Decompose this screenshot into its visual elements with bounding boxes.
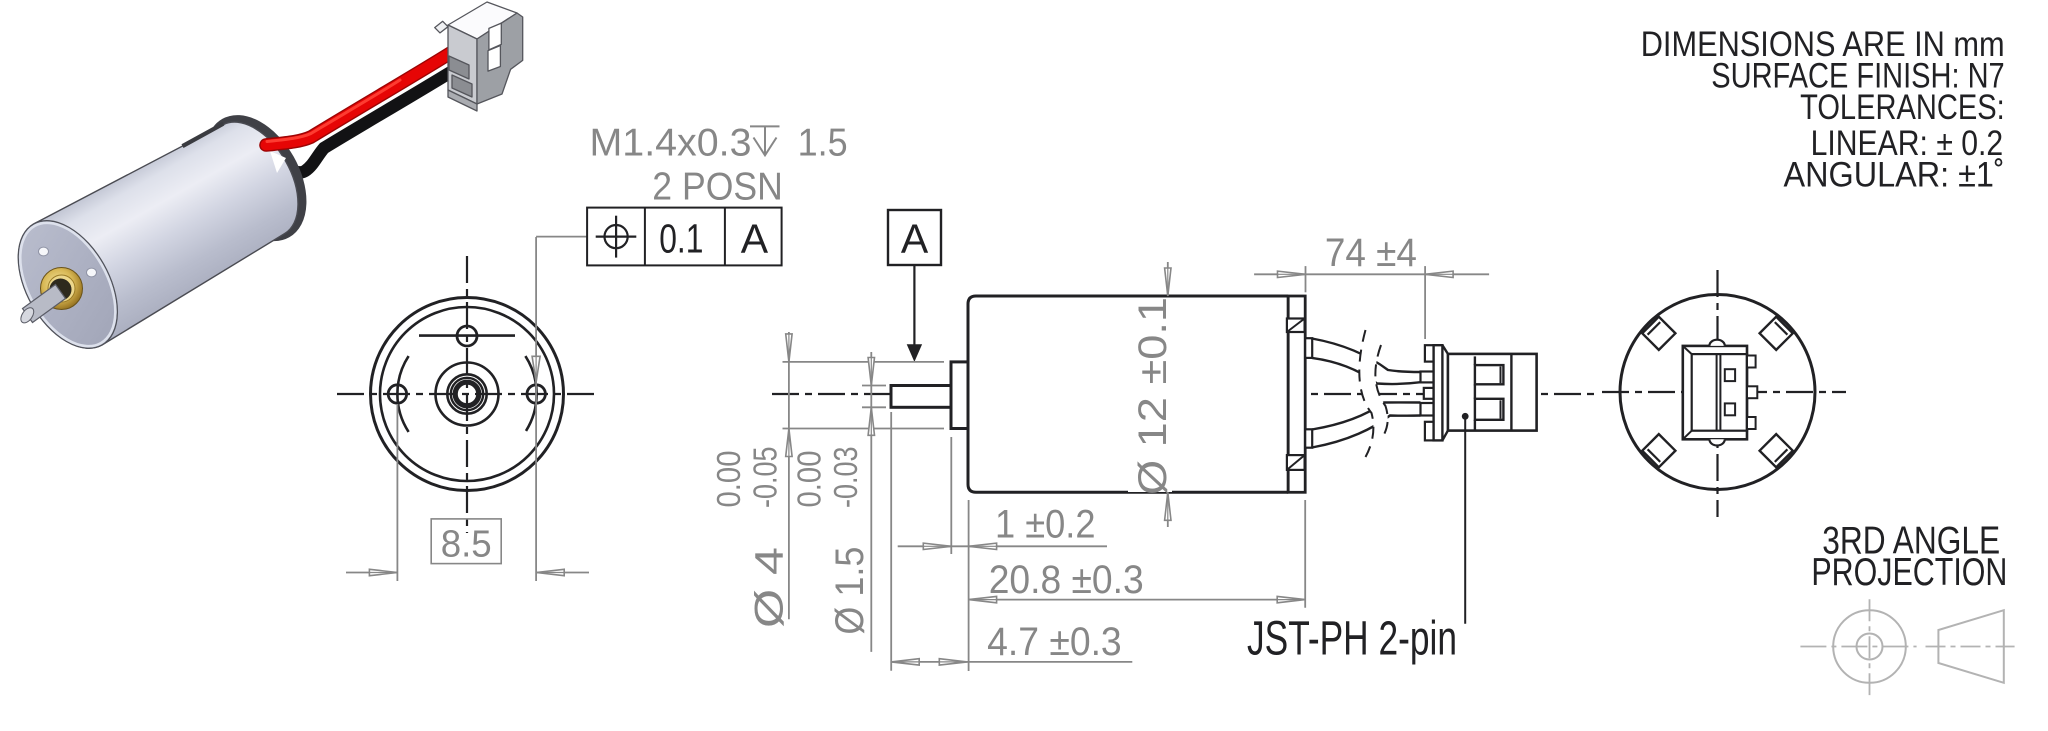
3D motor end cap rim	[191, 104, 321, 253]
projection symbol cone centerline	[1926, 646, 2015, 648]
dim dia4 arrow bottom	[786, 429, 792, 457]
dim 1 arrow left	[923, 543, 951, 549]
dim 20.8 arrow right	[1277, 596, 1305, 602]
svg-text:TOLERANCES:: TOLERANCES:	[1800, 88, 2005, 127]
dim 4.7 arrow right	[939, 659, 967, 665]
dim 74 extension left upper	[1305, 266, 1307, 292]
dim dia4 extension bottom	[783, 428, 945, 430]
feature control frame leader arrow	[532, 356, 540, 382]
rear view crimp tab top-right	[1760, 317, 1793, 350]
dim 1 extension right	[968, 500, 970, 671]
3D motor face	[0, 204, 138, 366]
dim 1 arrow right	[969, 543, 997, 549]
rear connector corner diag bottom	[1683, 431, 1692, 440]
dim dia12 text bg	[1128, 300, 1172, 492]
dim dia4 extension top	[783, 361, 945, 363]
dim 4.7 arrow left	[891, 659, 919, 665]
connector pin lower	[1421, 403, 1434, 416]
front view centerline horizontal	[337, 393, 598, 395]
dim dia1.5 arrow top	[868, 358, 874, 386]
projection symbol crosshair	[1800, 646, 1916, 648]
front view left mounting hole	[388, 385, 406, 403]
connector housing chamfer bottom	[1442, 431, 1448, 441]
wire break line right	[1375, 345, 1387, 438]
svg-text:0.00: 0.00	[710, 451, 747, 508]
dim 8.5 dimension line right	[536, 572, 589, 574]
connector pin slot upper	[1475, 365, 1504, 384]
dim 8.5 arrow right	[536, 569, 564, 575]
3D red wire core	[266, 52, 452, 145]
datum A triangle	[907, 344, 922, 362]
dim 8.5 extension line left	[396, 404, 398, 581]
front view top hole chord line	[419, 334, 515, 337]
3D gold bushing inner ring	[48, 275, 75, 302]
front view bearing circle	[447, 374, 486, 413]
connector pin middle	[1424, 388, 1434, 399]
rear connector side tab 1	[1747, 356, 1756, 368]
3D gold bushing outer	[41, 268, 83, 310]
datum A leader	[913, 265, 915, 346]
dim dia12 line top	[1167, 262, 1169, 296]
svg-text:1.5: 1.5	[798, 121, 848, 164]
3D red wire outline	[266, 52, 452, 145]
front view centerline vertical	[466, 256, 468, 533]
3D shaft	[23, 285, 66, 323]
feature control frame divider 2	[724, 208, 726, 266]
connector leader line	[1464, 419, 1466, 624]
dim 74 arrow right	[1425, 271, 1453, 277]
side view wire stub bottom	[1305, 429, 1312, 447]
side view shaft	[891, 386, 951, 408]
dim dia1.5 arrow bottom	[868, 407, 874, 435]
dim 1 extension left	[950, 437, 952, 554]
connector slot left edge segments	[1474, 356, 1476, 365]
rear connector top bump	[1709, 340, 1724, 346]
dim 1 dimension line	[898, 545, 1107, 547]
projection symbol circle	[1833, 610, 1906, 683]
3D JST connector housing	[435, 2, 523, 111]
wire break line left	[1359, 330, 1373, 457]
dim 20.8 arrow left	[969, 596, 997, 602]
svg-text:1 ±0.2: 1 ±0.2	[995, 502, 1096, 546]
rear view centerline horizontal	[1602, 391, 1846, 393]
front view bolt circle arc right	[525, 356, 536, 431]
dim dia12 arrow bottom	[1165, 492, 1171, 520]
3D red wire highlight	[267, 80, 400, 142]
side view end cap band	[1288, 296, 1305, 492]
dim dia12 arrow top	[1165, 268, 1171, 296]
connector flange plate	[1434, 345, 1443, 440]
rear connector key square upper	[1725, 369, 1735, 381]
position symbol	[596, 216, 637, 258]
side view motor body	[968, 296, 1288, 492]
connector flange tab bottom	[1425, 422, 1434, 441]
svg-text:0.00: 0.00	[791, 451, 828, 508]
3D rendered motor with wires and JST connector	[0, 2, 523, 365]
side view body right edge	[1287, 296, 1290, 492]
3D face screw hole upper	[39, 247, 49, 256]
rear connector side tab 3	[1747, 417, 1756, 429]
connector pin slot lower	[1475, 399, 1504, 420]
front view inner rim circle	[380, 307, 554, 481]
connector housing box	[1448, 354, 1537, 431]
svg-text:8.5: 8.5	[441, 524, 492, 566]
feature control frame leader	[536, 236, 587, 238]
front view bushing ring outer	[451, 378, 483, 410]
dim 74 dimension line	[1254, 273, 1489, 275]
front view top hole	[457, 326, 477, 346]
dim dia4 arrow top	[786, 334, 792, 362]
dim dia1.5 extension top	[862, 385, 886, 387]
connector slot lip lower	[1500, 400, 1502, 418]
rear connector divider lines	[1716, 354, 1718, 431]
3D shaft tip	[18, 305, 36, 325]
side view centerline	[772, 393, 1594, 395]
svg-text:A: A	[741, 215, 769, 261]
wire break mask	[1359, 330, 1387, 457]
rear connector inner rect	[1692, 354, 1747, 431]
3D motor body	[19, 122, 298, 348]
rear view crimp tab bottom-right	[1760, 434, 1793, 467]
feature control frame box	[587, 208, 782, 266]
svg-text:2 POSN: 2 POSN	[652, 166, 783, 209]
projection symbol cone	[1938, 610, 2003, 683]
front view boss circle	[436, 363, 499, 426]
dim dia4 dimension line	[788, 332, 790, 619]
dim 8.5 arrow left	[369, 569, 397, 575]
side view cap notch top	[1287, 319, 1305, 333]
feature control frame divider 1	[644, 208, 646, 266]
svg-text:JST-PH 2-pin: JST-PH 2-pin	[1247, 613, 1457, 666]
front view right mounting hole	[527, 385, 545, 403]
dim 4.7 extension left	[890, 412, 892, 671]
dim 4.7 dimension line	[891, 661, 1132, 663]
svg-text:-0.03: -0.03	[827, 447, 864, 509]
svg-text:A: A	[901, 215, 929, 261]
svg-text:PROJECTION: PROJECTION	[1811, 551, 2007, 594]
rear connector outer rect	[1683, 346, 1747, 439]
datum A box	[888, 210, 941, 265]
svg-text:ANGULAR: ±1˚: ANGULAR: ±1˚	[1784, 156, 2005, 195]
3D motor end cap fill	[191, 104, 321, 253]
connector pin upper	[1421, 372, 1434, 383]
dim 20.8 dimension line	[969, 599, 1306, 601]
dim 74 extension right	[1424, 266, 1426, 339]
connector housing divider	[1510, 354, 1512, 431]
3D bearing bore	[50, 279, 72, 301]
front view shaft ring thick	[455, 382, 479, 406]
dim dia1.5 dimension line	[870, 352, 872, 652]
dim dia1.5 extension bottom	[862, 406, 886, 408]
dim 74 arrow left	[1278, 271, 1306, 277]
svg-text:M1.4x0.3: M1.4x0.3	[590, 121, 752, 164]
side view bushing	[951, 362, 968, 429]
dim 20.8 extension right	[1304, 500, 1306, 608]
connector slot lip upper	[1500, 367, 1502, 384]
connector housing chamfer top	[1442, 345, 1448, 354]
rear connector corner diag top	[1683, 346, 1692, 354]
3D black wire	[279, 69, 456, 173]
rear connector side tab 2	[1747, 386, 1757, 398]
svg-text:Ø 12 ±0.1: Ø 12 ±0.1	[1131, 297, 1175, 495]
rear view circle	[1620, 295, 1815, 490]
rear connector bottom bump	[1709, 439, 1724, 445]
dim 8.5 basic box	[431, 519, 501, 564]
side view cap notch bottom	[1287, 455, 1305, 470]
side view wire outlines	[1312, 339, 1421, 448]
3D face rim highlight	[1, 207, 136, 363]
3D cap rim sliver	[183, 124, 224, 146]
connector leader dot	[1462, 413, 1469, 420]
front view bolt circle arc left	[397, 356, 408, 432]
connector flange tab top	[1425, 345, 1434, 361]
front view outer circle	[371, 298, 564, 491]
svg-text:74 ±4: 74 ±4	[1325, 231, 1417, 275]
svg-text:4.7 ±0.3: 4.7 ±0.3	[987, 620, 1122, 664]
thread depth symbol	[750, 126, 780, 155]
svg-text:0.1: 0.1	[659, 215, 703, 261]
3D wire exit notch	[270, 151, 286, 173]
3D face screw hole lower	[87, 268, 97, 277]
dim 8.5 dimension line left	[346, 572, 397, 574]
svg-text:-0.05: -0.05	[747, 447, 784, 509]
rear view crimp tab bottom-left	[1642, 434, 1675, 467]
svg-text:Ø 4: Ø 4	[747, 547, 791, 628]
svg-text:20.8 ±0.3: 20.8 ±0.3	[989, 558, 1144, 602]
dim dia12 line bottom	[1167, 492, 1169, 527]
rear view centerline vertical	[1716, 270, 1718, 517]
svg-text:Ø 1.5: Ø 1.5	[828, 547, 872, 635]
rear connector key square lower	[1725, 403, 1735, 415]
dim 8.5 leader-extension line right	[535, 237, 537, 581]
rear view crimp tab top-left	[1642, 317, 1675, 350]
side view wire stub top	[1305, 338, 1312, 358]
